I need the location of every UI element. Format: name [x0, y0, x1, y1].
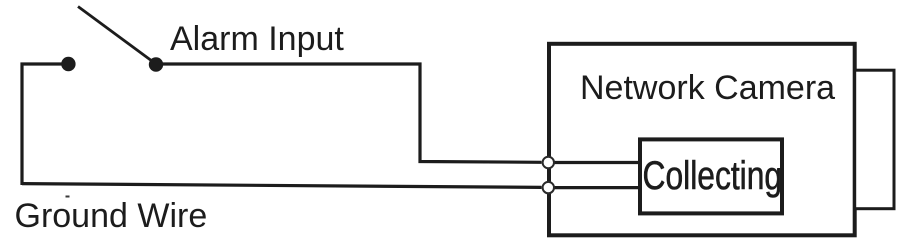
wire: ground terminal to collecting module — [549, 186, 640, 189]
switch left contact dot — [61, 57, 75, 71]
stray mark above Ground Wire label — [66, 196, 70, 198]
wire: ground wire from left vertical to camera ground terminal — [22, 184, 542, 188]
camera connector tab on right side — [855, 70, 894, 209]
collecting module box — [640, 139, 782, 213]
svg-text:Network Camera: Network Camera — [580, 69, 835, 107]
svg-text:Collecting: Collecting — [643, 152, 783, 197]
network camera enclosure box — [549, 44, 855, 236]
wire: alarm terminal to collecting module — [549, 161, 640, 164]
terminal node: ground (open circle on camera edge) — [543, 182, 554, 193]
wire: left vertical from switch terminal down to ground wire — [21, 63, 63, 186]
terminal node: alarm input (open circle on camera edge) — [543, 157, 554, 168]
svg-text:Ground Wire: Ground Wire — [15, 197, 208, 235]
svg-text:Alarm Input: Alarm Input — [170, 20, 344, 58]
switch blade (diagonal arm) — [78, 7, 156, 65]
switch right contact dot — [149, 57, 163, 71]
wire: alarm input run from switch to camera terminal — [156, 64, 542, 162]
